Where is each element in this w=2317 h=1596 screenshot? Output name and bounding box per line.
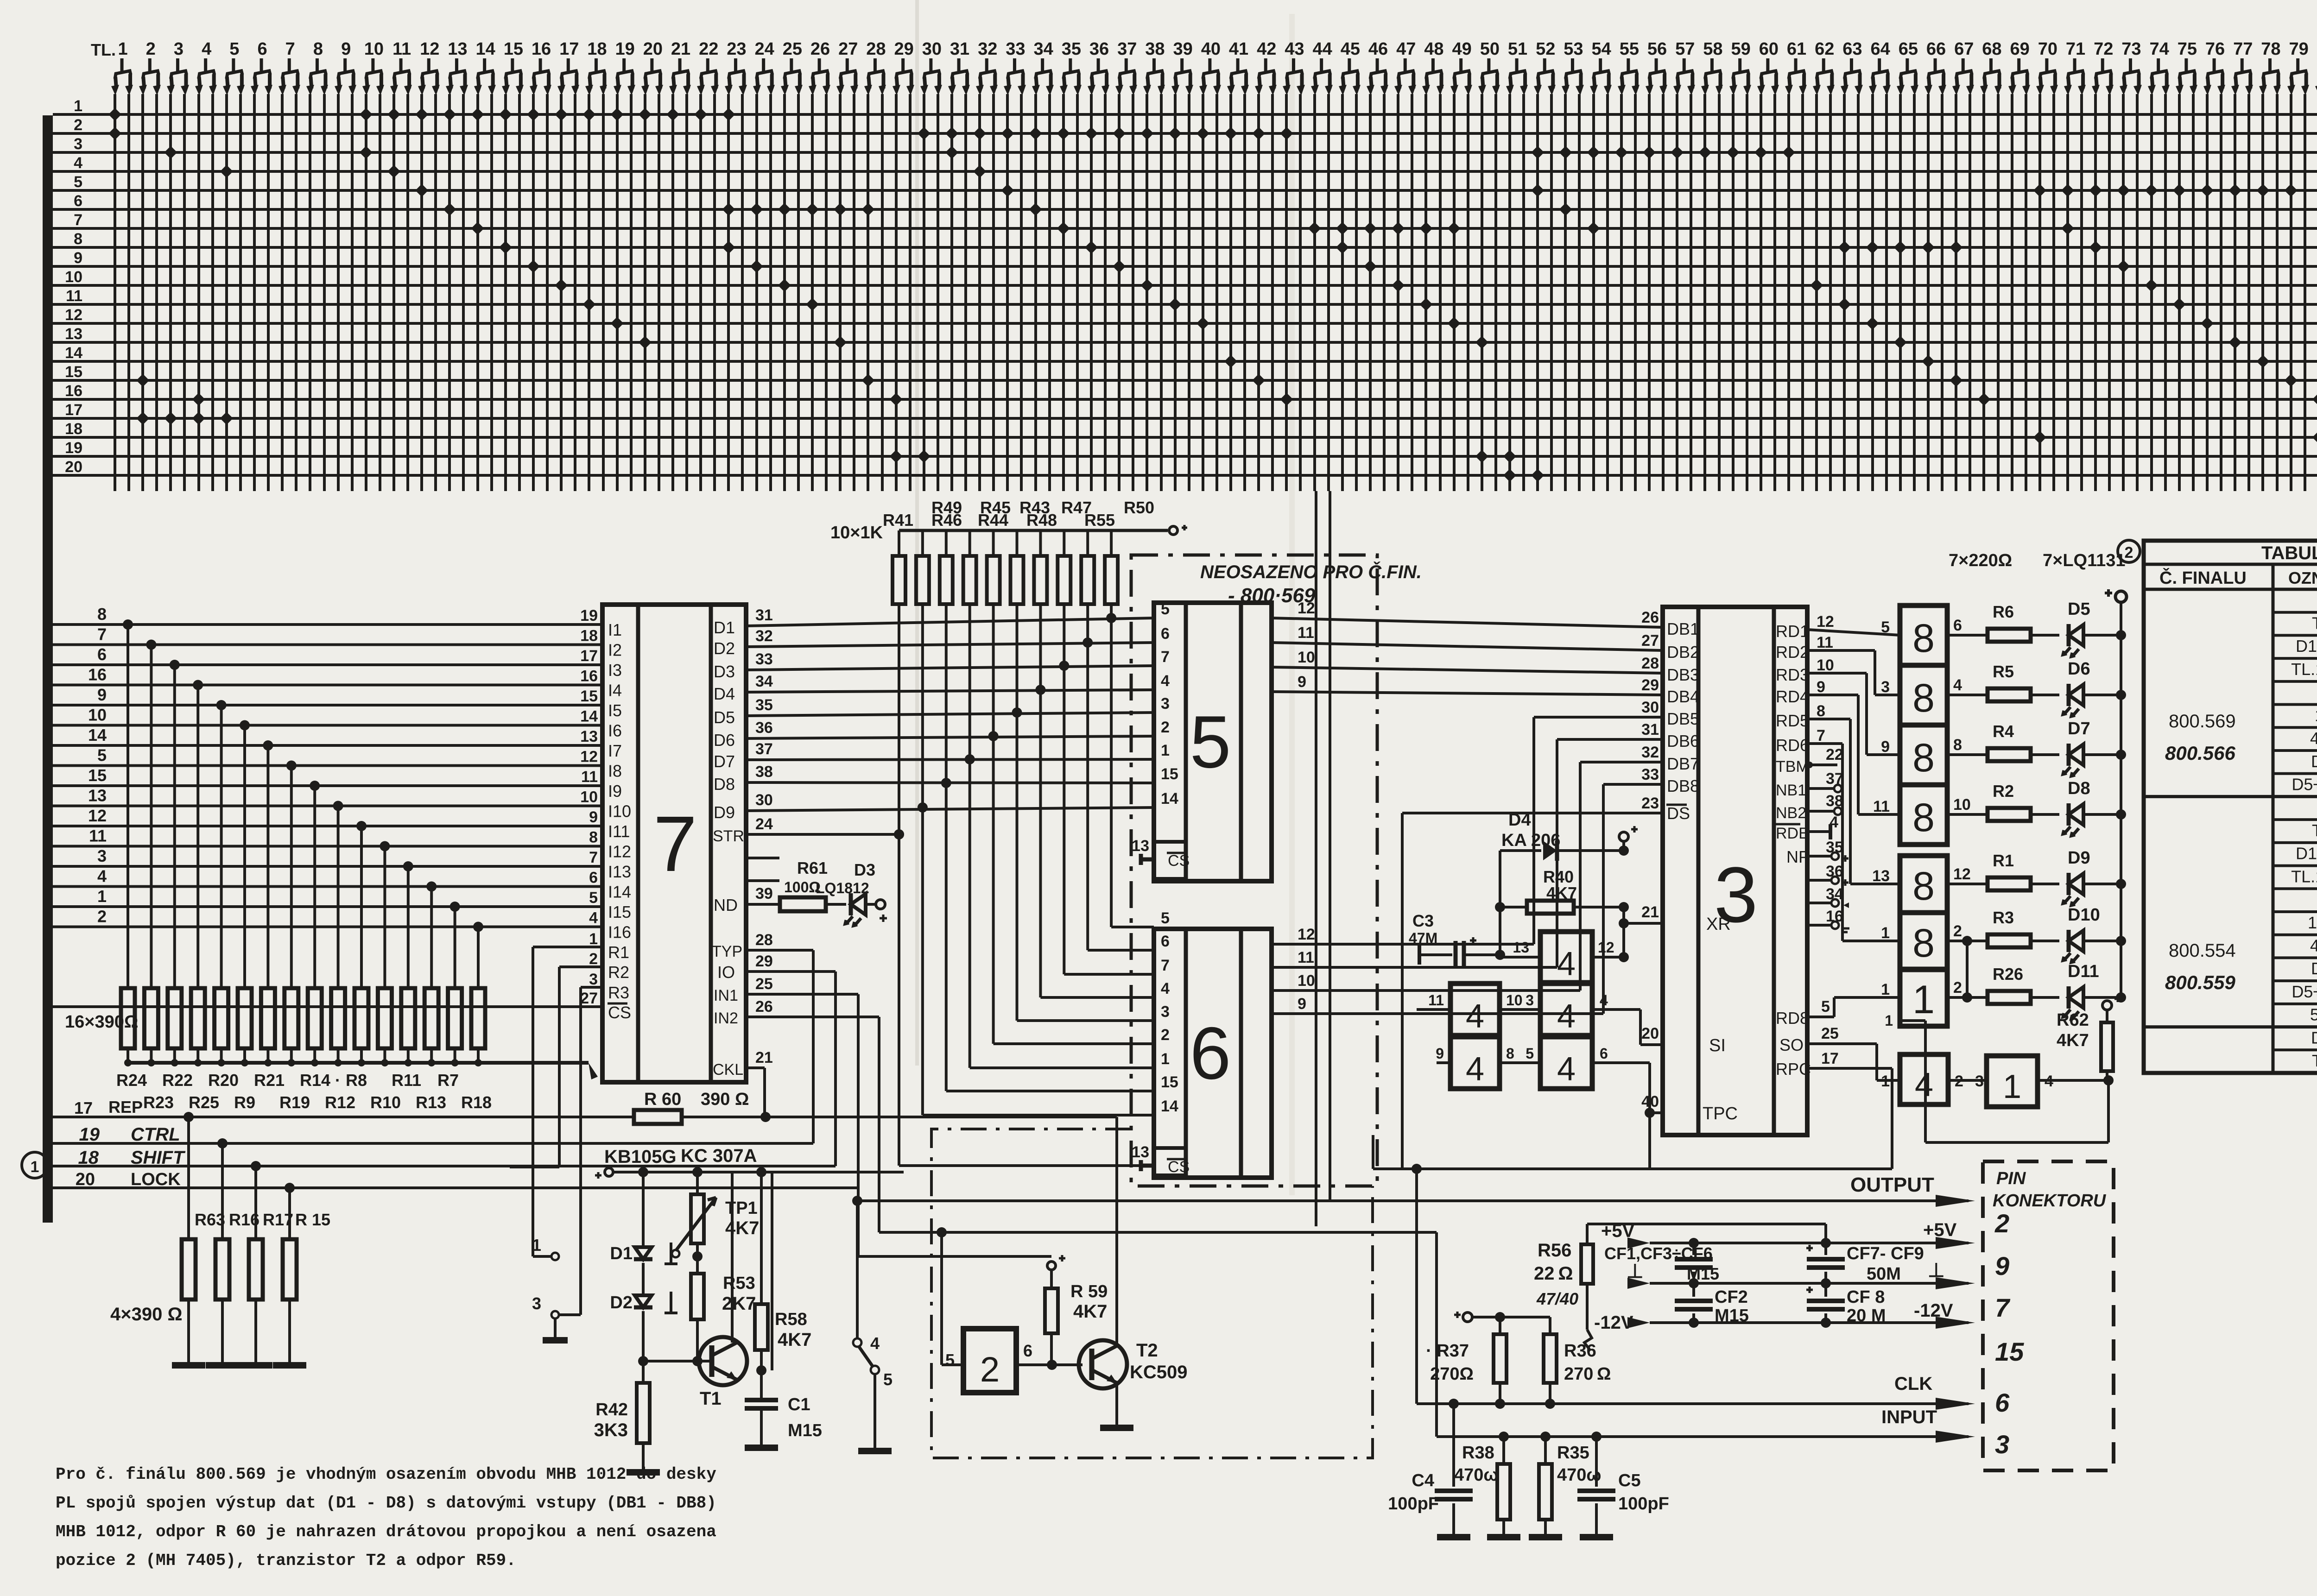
key switch TL.43	[1283, 39, 1305, 95]
svg-text:24: 24	[755, 39, 774, 59]
key switch TL.32	[976, 39, 998, 95]
svg-text:1: 1	[1161, 742, 1170, 759]
svg-text:16×390Ω: 16×390Ω	[65, 1012, 138, 1032]
key switch TL.30	[920, 39, 942, 95]
svg-text:17: 17	[559, 39, 579, 59]
svg-text:D5÷D11: D5÷D11	[2292, 982, 2317, 1001]
svg-text:T1: T1	[700, 1388, 722, 1409]
svg-text:NB1: NB1	[1776, 782, 1806, 799]
svg-text:11: 11	[392, 39, 411, 59]
wire -12V	[1650, 1321, 1969, 1324]
key switch TL.36	[1088, 39, 1109, 95]
svg-text:20: 20	[65, 458, 82, 476]
svg-text:30: 30	[755, 791, 773, 809]
svg-text:12: 12	[580, 748, 598, 766]
svg-text:51: 51	[1508, 39, 1527, 59]
svg-text:10: 10	[364, 39, 384, 59]
svg-text:21: 21	[1641, 903, 1659, 921]
svg-text:13: 13	[88, 786, 107, 805]
svg-text:390 Ω: 390 Ω	[701, 1090, 749, 1109]
svg-text:PIN: PIN	[1996, 1169, 2026, 1188]
svg-text:4,8: 4,8	[2310, 936, 2317, 955]
svg-text:11: 11	[66, 287, 82, 305]
svg-text:D1, D2: D1, D2	[2296, 637, 2317, 656]
key switch TL.16	[530, 39, 551, 95]
matrix row wire 6	[53, 208, 2317, 211]
svg-text:17: 17	[1821, 1050, 1839, 1067]
svg-text:4: 4	[97, 867, 107, 886]
svg-text:D3: D3	[2311, 1028, 2317, 1047]
svg-text:37: 37	[1117, 39, 1137, 59]
matrix junction dots	[108, 108, 121, 121]
resistor R42 3K3	[637, 1383, 650, 1443]
svg-text:2: 2	[589, 950, 598, 968]
key switch TL.75	[2176, 39, 2197, 95]
resistor R36 270ohm	[1544, 1334, 1557, 1383]
svg-text:58: 58	[1703, 39, 1722, 59]
svg-text:7: 7	[1995, 1293, 2011, 1322]
svg-text:20: 20	[643, 39, 663, 59]
terminal + for R37/R36	[1463, 1312, 1472, 1322]
svg-text:18: 18	[78, 1148, 99, 1168]
key switch TL.55	[1618, 39, 1640, 95]
svg-text:I1: I1	[608, 620, 622, 639]
svg-text:2: 2	[1161, 719, 1170, 736]
matrix row wire 7	[53, 227, 2317, 230]
driver stack A (4x '8')	[1900, 606, 1947, 665]
svg-text:3: 3	[1526, 992, 1534, 1009]
svg-text:R19: R19	[279, 1093, 310, 1112]
svg-text:8: 8	[1953, 736, 1962, 754]
svg-text:+5V: +5V	[1923, 1220, 1957, 1240]
svg-text:6: 6	[1161, 933, 1170, 950]
svg-text:19: 19	[79, 1124, 100, 1145]
svg-text:63: 63	[1842, 39, 1862, 59]
svg-text:79: 79	[2289, 39, 2309, 59]
svg-text:RD6: RD6	[1776, 736, 1809, 755]
matrix row wire 14	[53, 360, 2317, 363]
svg-text:28: 28	[866, 39, 886, 59]
svg-text:R56: R56	[1538, 1240, 1571, 1261]
svg-text:R17: R17	[263, 1210, 293, 1229]
key switch TL.4	[195, 39, 217, 95]
svg-text:T1: T1	[2312, 614, 2317, 633]
svg-text:C5: C5	[1618, 1471, 1641, 1490]
svg-text:LOCK: LOCK	[131, 1170, 181, 1189]
svg-text:16: 16	[532, 39, 551, 59]
svg-text:8: 8	[1817, 702, 1825, 720]
svg-text:6: 6	[74, 192, 82, 210]
svg-text:RDE: RDE	[1776, 825, 1809, 842]
key switch TL.20	[641, 39, 663, 95]
svg-text:46: 46	[1368, 39, 1388, 59]
svg-text:16: 16	[580, 668, 598, 685]
wires RD1-RD6 to drivers	[1807, 630, 1900, 635]
key switch TL.68	[1980, 39, 2002, 95]
svg-text:R 59: R 59	[1070, 1282, 1108, 1301]
wire OUTPUT	[857, 1199, 1969, 1202]
svg-text:D3: D3	[714, 662, 735, 681]
capacitor CF2 M15	[1692, 1283, 1695, 1297]
row-bus wire 4 to IC7 pin 6	[53, 885, 602, 888]
key switch TL.3	[167, 39, 189, 95]
svg-text:13: 13	[1132, 837, 1149, 855]
svg-text:IN1: IN1	[714, 987, 738, 1004]
svg-text:41: 41	[1229, 39, 1248, 59]
svg-text:16: 16	[65, 382, 82, 400]
key switch TL.65	[1897, 39, 1918, 95]
key switch TL.79	[2287, 39, 2309, 95]
svg-text:22: 22	[699, 39, 718, 59]
svg-text:66: 66	[1926, 39, 1946, 59]
svg-text:36: 36	[755, 719, 773, 737]
key switch TL.34	[1032, 39, 1054, 95]
matrix row wire 3	[53, 151, 2317, 154]
svg-text:77: 77	[2233, 39, 2253, 59]
svg-text:5: 5	[97, 746, 107, 765]
svg-text:D7: D7	[714, 752, 735, 771]
svg-text:2: 2	[1994, 1209, 2009, 1238]
svg-text:NB2: NB2	[1776, 804, 1806, 822]
svg-text:25: 25	[755, 975, 773, 993]
key switch TL.71	[2064, 39, 2086, 95]
svg-text:17: 17	[65, 401, 82, 419]
wire GND	[1650, 1282, 1969, 1285]
svg-text:RPC: RPC	[1776, 1060, 1811, 1079]
matrix row wire 10	[53, 284, 2317, 287]
svg-text:10: 10	[1817, 656, 1834, 674]
bank resistor drop wires onto data lines	[898, 604, 900, 1166]
svg-text:R1: R1	[608, 943, 629, 962]
svg-text:4K7: 4K7	[1073, 1301, 1107, 1322]
row-bus wire 6 to IC7 pin 17	[53, 663, 602, 666]
svg-text:DB7: DB7	[1667, 754, 1699, 773]
key switch TL.52	[1534, 39, 1556, 95]
svg-text:4: 4	[1557, 1051, 1576, 1088]
svg-text:4: 4	[1161, 672, 1170, 690]
svg-text:12: 12	[1298, 926, 1315, 943]
svg-text:CF 8: CF 8	[1847, 1287, 1885, 1307]
svg-text:800.554: 800.554	[2169, 940, 2236, 961]
svg-text:1,: 1,	[2315, 706, 2317, 725]
svg-text:9: 9	[1995, 1251, 2009, 1281]
chain-dash box around repeat oscillator	[931, 1129, 1373, 1458]
svg-text:15: 15	[504, 39, 523, 59]
svg-text:13: 13	[448, 39, 467, 59]
svg-text:28: 28	[755, 931, 773, 949]
svg-text:DS: DS	[1667, 804, 1690, 823]
svg-text:R3: R3	[608, 983, 629, 1002]
svg-text:33: 33	[755, 650, 773, 668]
svg-text:68: 68	[1982, 39, 2001, 59]
key switch TL.1	[111, 39, 133, 95]
svg-text:M15: M15	[1687, 1264, 1719, 1283]
switch contact 5	[871, 1366, 879, 1374]
svg-text:52: 52	[1536, 39, 1555, 59]
svg-text:19: 19	[615, 39, 635, 59]
svg-text:ND: ND	[714, 896, 738, 915]
key switch TL.33	[1004, 39, 1026, 95]
matrix row wire 9	[53, 265, 2317, 268]
key switch TL.56	[1646, 39, 1667, 95]
svg-text:DB6: DB6	[1667, 732, 1699, 751]
svg-text:17: 17	[580, 647, 598, 665]
IC U6 (MH 74S571 PROM)	[1154, 929, 1272, 1178]
svg-text:71: 71	[2066, 39, 2085, 59]
svg-text:32: 32	[1641, 744, 1659, 761]
svg-text:D2: D2	[610, 1293, 633, 1312]
svg-text:7: 7	[74, 211, 82, 229]
svg-text:13: 13	[65, 325, 82, 343]
key switch TL.27	[836, 39, 858, 95]
capacitor CF8 20M	[1824, 1283, 1827, 1297]
svg-text:PL spojů spojen výstup dat (D1: PL spojů spojen výstup dat (D1 - D8) s d…	[56, 1494, 716, 1513]
svg-text:4: 4	[1557, 998, 1576, 1035]
svg-text:D7: D7	[2068, 719, 2090, 738]
svg-text:INPUT: INPUT	[1881, 1407, 1937, 1427]
wire SHIFT (18)	[53, 1165, 836, 1167]
svg-text:1: 1	[74, 97, 82, 115]
resistor R59 4K7	[1047, 1262, 1056, 1270]
svg-text:R4: R4	[1993, 722, 2014, 741]
key switch TL.40	[1199, 39, 1221, 95]
svg-text:LQ1812: LQ1812	[816, 880, 869, 896]
key switch TL.67	[1952, 39, 1974, 95]
svg-text:M15: M15	[1715, 1306, 1749, 1325]
svg-text:47: 47	[1396, 39, 1416, 59]
svg-text:30: 30	[922, 39, 942, 59]
svg-text:23: 23	[727, 39, 746, 59]
svg-text:8: 8	[1912, 616, 1935, 661]
svg-text:32: 32	[755, 627, 773, 645]
IC7 pins R1 R2 R3 nested return wires	[533, 946, 602, 948]
svg-text:2K7: 2K7	[722, 1293, 756, 1314]
svg-text:4K7: 4K7	[2057, 1031, 2089, 1050]
IC6 outputs to IC3 DB5-DB8	[1272, 943, 1534, 946]
matrix row wire 19	[53, 455, 2317, 458]
svg-text:31: 31	[950, 39, 969, 59]
svg-text:3K3: 3K3	[594, 1420, 628, 1440]
svg-text:6: 6	[1953, 617, 1962, 634]
svg-text:10×1K: 10×1K	[830, 523, 883, 543]
key switch TL.25	[781, 39, 803, 95]
svg-text:22: 22	[1826, 746, 1843, 763]
svg-text:75: 75	[2178, 39, 2197, 59]
svg-text:8: 8	[1506, 1045, 1514, 1062]
svg-text:R44: R44	[978, 511, 1008, 530]
riser wires from logic to CLK/INPUT	[1415, 1169, 1418, 1404]
svg-text:5: 5	[1821, 998, 1830, 1016]
capacitor C5 100pF	[1595, 1437, 1598, 1487]
svg-text:STR: STR	[713, 827, 744, 845]
key switch TL.38	[1143, 39, 1165, 95]
svg-text:TP1: TP1	[725, 1199, 758, 1218]
svg-text:4: 4	[1557, 946, 1576, 983]
jumper between outputs 2 and 2	[1966, 941, 1969, 997]
svg-text:470ω: 470ω	[1454, 1465, 1499, 1485]
svg-text:RD4: RD4	[1776, 687, 1809, 706]
key switch TL.77	[2231, 39, 2253, 95]
svg-text:KONEKTORU: KONEKTORU	[1993, 1191, 2107, 1211]
svg-text:R22: R22	[162, 1071, 193, 1090]
capacitor C1 M15	[745, 1398, 778, 1402]
svg-text:9: 9	[589, 808, 598, 826]
svg-text:D1: D1	[714, 618, 735, 637]
svg-text:29: 29	[1641, 676, 1659, 694]
svg-text:D4: D4	[2311, 959, 2317, 978]
capacitor CF1,CF3-CF6 M15	[1692, 1243, 1695, 1255]
svg-text:TPC: TPC	[1703, 1104, 1738, 1123]
svg-text:34: 34	[1034, 39, 1053, 59]
svg-text:33: 33	[1641, 766, 1659, 783]
svg-text:800.566: 800.566	[2165, 742, 2235, 764]
svg-text:R18: R18	[461, 1093, 492, 1112]
svg-text:38: 38	[755, 763, 773, 781]
svg-text:22 Ω: 22 Ω	[1534, 1263, 1573, 1284]
row-bus wire 13 to IC7 pin 10	[53, 805, 602, 807]
svg-text:2: 2	[146, 39, 156, 59]
svg-text:8: 8	[1912, 736, 1935, 780]
svg-text:19: 19	[580, 607, 598, 625]
key switch TL.22	[697, 39, 719, 95]
svg-text:25: 25	[783, 39, 802, 59]
svg-text:17: 17	[74, 1098, 93, 1117]
svg-text:67: 67	[1954, 39, 1974, 59]
svg-text:13: 13	[1513, 939, 1529, 956]
key switch TL.13	[446, 39, 468, 95]
key switch TL.18	[585, 39, 607, 95]
svg-text:21: 21	[671, 39, 690, 59]
svg-text:72: 72	[2094, 39, 2113, 59]
svg-text:KB105G: KB105G	[604, 1147, 677, 1167]
svg-text:2: 2	[97, 907, 107, 926]
svg-text:15: 15	[1161, 1073, 1178, 1091]
matrix row wire 1	[53, 113, 2317, 116]
TPC loop around IC3 bottom to RPC	[1648, 1113, 1651, 1169]
resistor R38 470ohm	[1497, 1464, 1510, 1520]
wire LOCK (20)	[53, 1186, 858, 1189]
svg-text:SI: SI	[1709, 1036, 1726, 1055]
svg-text:R11: R11	[392, 1071, 421, 1090]
svg-text:M15: M15	[788, 1421, 822, 1440]
svg-text:D10: D10	[2068, 905, 2100, 925]
svg-text:TBM: TBM	[1776, 758, 1809, 776]
risers from IC7 TYP/IO/IN1/IN2	[812, 950, 815, 1143]
gate 1 (G) lower right	[1987, 1056, 2038, 1107]
svg-text:7×220Ω: 7×220Ω	[1949, 551, 2012, 570]
row-bus wire 3 to IC7 pin 7	[53, 865, 602, 868]
svg-text:54: 54	[1592, 39, 1611, 59]
svg-text:D4: D4	[714, 684, 735, 703]
svg-text:1: 1	[97, 887, 107, 906]
svg-text:CTRL: CTRL	[131, 1124, 180, 1145]
row-bus wire 2 to IC7 pin 4	[53, 926, 602, 928]
svg-text:470ω: 470ω	[1557, 1465, 1602, 1485]
svg-text:15: 15	[65, 363, 82, 381]
svg-text:· R37: · R37	[1426, 1341, 1469, 1361]
key switch TL.72	[2092, 39, 2114, 95]
key switch TL.8	[306, 39, 328, 95]
wires from TYP/IO/IN1/IN2 to risers	[746, 949, 813, 952]
row-bus wire 1 to IC7 pin 5	[53, 905, 602, 908]
svg-text:29: 29	[894, 39, 914, 59]
svg-text:74: 74	[2150, 39, 2169, 59]
left bus bar (thick)	[43, 115, 53, 1223]
svg-text:Č. FINALU: Č. FINALU	[2159, 567, 2247, 588]
capacitor C3 47M	[1418, 945, 1421, 965]
svg-text:38: 38	[1145, 39, 1165, 59]
svg-text:2: 2	[1161, 1026, 1170, 1044]
key switch TL.47	[1394, 39, 1416, 95]
key switch TL.28	[864, 39, 886, 95]
matrix row wire 16	[53, 398, 2317, 401]
table row lines	[2273, 611, 2317, 614]
LED anode rail to +	[2120, 602, 2122, 997]
svg-text:DB1: DB1	[1667, 619, 1699, 638]
resistor bank 10x1K R41-R55	[899, 529, 1168, 532]
wire CTRL (19)	[53, 1142, 813, 1145]
svg-text:4: 4	[589, 909, 598, 927]
matrix row wire 4	[53, 170, 2317, 173]
svg-text:RD5: RD5	[1776, 711, 1809, 730]
svg-text:13: 13	[1132, 1143, 1149, 1161]
switch contact 4	[853, 1338, 861, 1347]
svg-text:R20: R20	[208, 1071, 239, 1090]
key switch TL.45	[1339, 39, 1361, 95]
svg-text:61: 61	[1787, 39, 1806, 59]
svg-text:C1: C1	[788, 1395, 810, 1414]
svg-text:TABULKA POLOVODIČOVÝCH SOUČÁ: TABULKA POLOVODIČOVÝCH SOUČÁSTEK	[2261, 542, 2317, 563]
svg-text:2: 2	[980, 1350, 1000, 1389]
svg-text:27: 27	[838, 39, 858, 59]
svg-text:9: 9	[74, 249, 82, 267]
svg-text:4,8: 4,8	[2310, 729, 2317, 748]
svg-text:R7: R7	[437, 1071, 459, 1090]
svg-text:I7: I7	[608, 741, 622, 760]
svg-text:I9: I9	[608, 782, 622, 801]
svg-text:2: 2	[74, 116, 82, 134]
svg-text:Pro č. finálu 800.569 je vhodn: Pro č. finálu 800.569 je vhodným osazení…	[56, 1465, 716, 1484]
node circled 2	[2118, 540, 2140, 562]
svg-text:26: 26	[755, 998, 773, 1016]
svg-text:R9: R9	[234, 1093, 255, 1112]
svg-text:4: 4	[202, 39, 211, 59]
key switch TL.49	[1450, 39, 1472, 95]
svg-text:TL.1÷87: TL.1÷87	[2291, 867, 2317, 886]
svg-text:14: 14	[1161, 790, 1178, 807]
svg-text:1: 1	[532, 1236, 541, 1255]
svg-text:CS: CS	[608, 1003, 631, 1022]
svg-text:SHIFT: SHIFT	[131, 1148, 186, 1168]
svg-text:R62: R62	[2057, 1010, 2089, 1030]
svg-text:I12: I12	[608, 842, 631, 861]
svg-text:D1: D1	[610, 1244, 633, 1263]
svg-text:R35: R35	[1557, 1443, 1589, 1463]
svg-text:4: 4	[1161, 980, 1170, 997]
gate 4 (D, pins 11/10)	[1450, 984, 1500, 1035]
row-bus wire 14 to IC7 pin 13	[53, 744, 602, 747]
svg-text:R10: R10	[370, 1093, 401, 1112]
svg-text:42: 42	[1257, 39, 1276, 59]
svg-text:3: 3	[1995, 1430, 2009, 1459]
svg-text:RD2: RD2	[1776, 643, 1809, 662]
svg-text:47/40: 47/40	[1536, 1289, 1578, 1308]
svg-text:14: 14	[476, 39, 495, 59]
key switch TL.12	[418, 39, 440, 95]
svg-text:D5: D5	[2068, 599, 2090, 619]
IC U7 (MH 113 keyboard encoder)	[602, 605, 746, 1082]
svg-text:KC509: KC509	[1130, 1362, 1188, 1382]
